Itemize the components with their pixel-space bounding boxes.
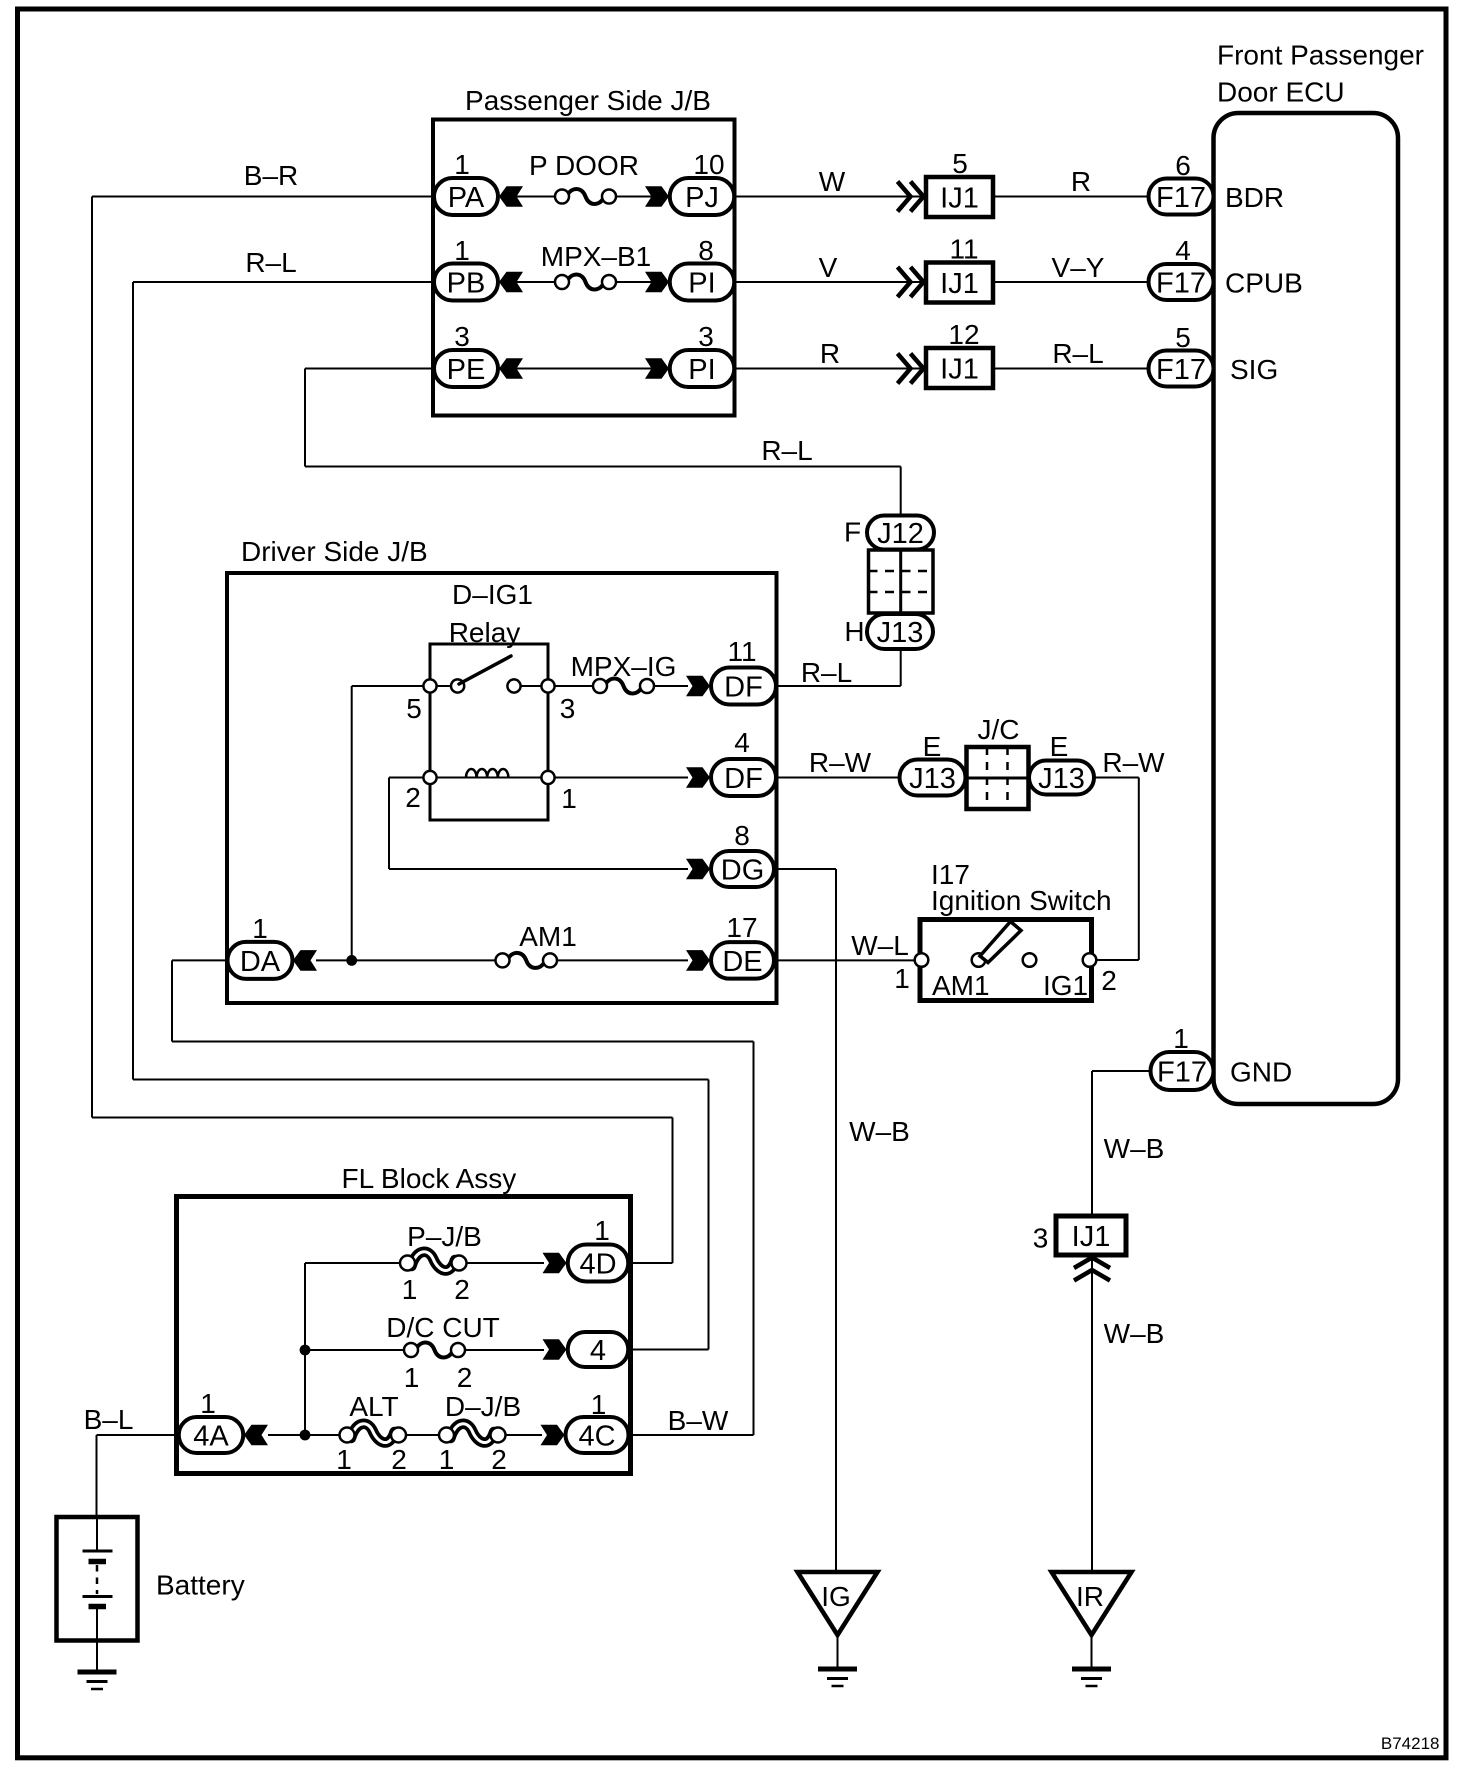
svg-text:W–B: W–B <box>849 1116 910 1147</box>
svg-text:PI: PI <box>688 354 715 386</box>
svg-text:PE: PE <box>447 354 486 386</box>
svg-text:DF: DF <box>724 763 763 795</box>
svg-text:J12: J12 <box>877 518 924 550</box>
svg-text:E: E <box>1050 731 1069 762</box>
svg-text:H: H <box>844 616 864 647</box>
svg-text:J13: J13 <box>909 763 956 795</box>
svg-text:E: E <box>923 731 942 762</box>
svg-text:1: 1 <box>1173 1023 1189 1054</box>
svg-text:PB: PB <box>447 267 486 299</box>
svg-text:IJ1: IJ1 <box>940 268 979 300</box>
svg-text:B–L: B–L <box>84 1404 134 1435</box>
svg-text:D–IG1: D–IG1 <box>452 579 533 610</box>
svg-text:IJ1: IJ1 <box>940 354 979 386</box>
svg-text:2: 2 <box>1101 965 1117 996</box>
svg-text:IJ1: IJ1 <box>940 183 979 215</box>
svg-text:D/C CUT: D/C CUT <box>386 1312 500 1343</box>
svg-text:4: 4 <box>1175 235 1191 266</box>
svg-text:R–L: R–L <box>801 657 852 688</box>
svg-text:11: 11 <box>949 234 978 265</box>
svg-text:Door ECU: Door ECU <box>1217 77 1345 108</box>
svg-text:R: R <box>1071 166 1091 197</box>
svg-text:SIG: SIG <box>1230 354 1278 385</box>
svg-text:F17: F17 <box>1156 354 1206 386</box>
svg-text:MPX–B1: MPX–B1 <box>541 241 652 272</box>
svg-text:B74218: B74218 <box>1381 1734 1440 1753</box>
svg-text:1: 1 <box>894 963 910 994</box>
svg-text:5: 5 <box>406 693 422 724</box>
svg-text:1: 1 <box>454 235 470 266</box>
svg-text:Front Passenger: Front Passenger <box>1217 40 1424 71</box>
svg-text:V–Y: V–Y <box>1052 252 1105 283</box>
svg-text:R–L: R–L <box>761 435 812 466</box>
svg-text:DE: DE <box>722 946 762 978</box>
svg-text:Ignition Switch: Ignition Switch <box>931 885 1112 916</box>
svg-text:P–J/B: P–J/B <box>407 1221 482 1252</box>
svg-text:3: 3 <box>454 321 470 352</box>
svg-text:P DOOR: P DOOR <box>529 150 639 181</box>
svg-text:1: 1 <box>594 1215 610 1246</box>
svg-text:1: 1 <box>336 1444 352 1475</box>
svg-text:4A: 4A <box>193 1421 229 1453</box>
svg-text:8: 8 <box>698 235 714 266</box>
svg-text:4: 4 <box>590 1335 606 1367</box>
svg-text:ALT: ALT <box>349 1391 398 1422</box>
svg-text:8: 8 <box>734 820 750 851</box>
svg-text:R–L: R–L <box>1052 338 1103 369</box>
svg-text:2: 2 <box>457 1362 473 1393</box>
svg-text:W: W <box>819 166 846 197</box>
svg-text:1: 1 <box>591 1389 607 1420</box>
svg-text:17: 17 <box>726 912 757 943</box>
svg-text:W–B: W–B <box>1104 1318 1165 1349</box>
svg-text:DA: DA <box>240 946 281 978</box>
svg-text:AM1: AM1 <box>519 921 577 952</box>
svg-text:1: 1 <box>561 783 577 814</box>
svg-text:F17: F17 <box>1156 182 1206 214</box>
svg-text:IG1: IG1 <box>1043 970 1088 1001</box>
svg-text:1: 1 <box>402 1274 418 1305</box>
svg-text:2: 2 <box>391 1444 407 1475</box>
svg-text:1: 1 <box>439 1444 455 1475</box>
svg-text:R–L: R–L <box>245 247 296 278</box>
svg-text:J/C: J/C <box>978 714 1020 745</box>
svg-text:2: 2 <box>405 782 421 813</box>
svg-text:2: 2 <box>454 1274 470 1305</box>
svg-text:Passenger Side J/B: Passenger Side J/B <box>465 85 711 116</box>
svg-text:B–W: B–W <box>668 1405 729 1436</box>
svg-text:PA: PA <box>448 182 485 214</box>
svg-text:PJ: PJ <box>685 182 719 214</box>
svg-text:R–W: R–W <box>809 747 872 778</box>
svg-text:AM1: AM1 <box>932 970 990 1001</box>
svg-text:BDR: BDR <box>1225 182 1284 213</box>
svg-text:Battery: Battery <box>156 1570 245 1601</box>
svg-text:PI: PI <box>688 267 715 299</box>
svg-text:1: 1 <box>200 1388 216 1419</box>
svg-text:5: 5 <box>952 148 968 179</box>
svg-text:4C: 4C <box>578 1421 615 1453</box>
svg-text:5: 5 <box>1175 322 1191 353</box>
svg-text:F17: F17 <box>1156 267 1206 299</box>
svg-text:1: 1 <box>454 149 470 180</box>
svg-text:MPX–IG: MPX–IG <box>571 651 677 682</box>
svg-text:1: 1 <box>252 913 268 944</box>
svg-text:CPUB: CPUB <box>1225 268 1303 299</box>
svg-text:DF: DF <box>724 671 763 703</box>
svg-text:B–R: B–R <box>244 160 298 191</box>
svg-text:3: 3 <box>1033 1223 1049 1254</box>
svg-text:10: 10 <box>693 149 724 180</box>
svg-text:IJ1: IJ1 <box>1072 1221 1111 1253</box>
svg-text:12: 12 <box>948 319 979 350</box>
svg-text:4D: 4D <box>579 1249 616 1281</box>
svg-text:Relay: Relay <box>449 617 521 648</box>
svg-text:J13: J13 <box>877 617 924 649</box>
svg-text:1: 1 <box>404 1362 420 1393</box>
svg-text:Driver Side J/B: Driver Side J/B <box>241 536 428 567</box>
svg-text:W–L: W–L <box>851 930 909 961</box>
svg-text:11: 11 <box>727 636 756 667</box>
svg-text:2: 2 <box>491 1444 507 1475</box>
svg-text:W–B: W–B <box>1104 1133 1165 1164</box>
svg-text:6: 6 <box>1175 150 1191 181</box>
svg-text:D–J/B: D–J/B <box>445 1391 521 1422</box>
svg-text:3: 3 <box>698 321 714 352</box>
svg-text:R–W: R–W <box>1102 747 1165 778</box>
svg-text:FL Block Assy: FL Block Assy <box>342 1163 517 1194</box>
svg-text:IG: IG <box>821 1581 851 1612</box>
svg-text:V: V <box>819 252 838 283</box>
svg-text:4: 4 <box>734 727 750 758</box>
svg-text:F17: F17 <box>1157 1057 1207 1089</box>
svg-text:F: F <box>844 517 861 548</box>
svg-text:3: 3 <box>560 693 576 724</box>
svg-text:J13: J13 <box>1038 763 1085 795</box>
svg-text:DG: DG <box>721 854 765 886</box>
svg-text:IR: IR <box>1076 1581 1104 1612</box>
svg-text:GND: GND <box>1230 1057 1292 1088</box>
svg-text:R: R <box>820 338 840 369</box>
